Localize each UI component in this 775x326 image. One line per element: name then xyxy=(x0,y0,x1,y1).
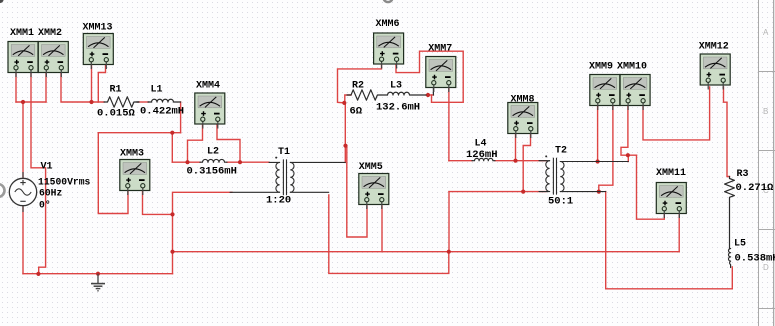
wire L1 output down to node xyxy=(180,102,182,133)
op multimeter XMM1 xyxy=(8,42,38,78)
svg-text:L1: L1 xyxy=(151,85,163,96)
svg-text:0.3156mH: 0.3156mH xyxy=(187,166,237,178)
wire R1 to L1 mid segment xyxy=(138,101,149,103)
svg-text:XMM1: XMM1 xyxy=(10,28,34,39)
multimeter XMM11 xyxy=(656,183,686,219)
lead XMM7.left to L3 row xyxy=(432,88,434,95)
wire T1 top-right up xyxy=(344,103,346,162)
svg-text:XMM9: XMM9 xyxy=(589,62,613,73)
svg-text:V1: V1 xyxy=(41,162,53,173)
node L3 out xyxy=(426,93,430,97)
wire T2 top lead corner up xyxy=(627,155,629,161)
svg-text:XMM13: XMM13 xyxy=(83,23,113,34)
wire T2 bottom-left row xyxy=(449,191,546,193)
wire node to XMM3 branch: down x=98.3 then right at 132.7 xyxy=(98,132,172,134)
wire bottom rail xyxy=(23,273,173,275)
wire XMM10.left jog down xyxy=(621,105,637,155)
wire R2-L3 dark segment xyxy=(381,94,388,96)
wire XMM6.left loop xyxy=(338,65,382,103)
node ground tap xyxy=(96,272,100,276)
wire XMM13.right jog down to node xyxy=(98,65,105,102)
wire XMM5.left branch xyxy=(347,146,367,237)
wire XMM2.left down xyxy=(45,72,47,102)
svg-text:6Ω: 6Ω xyxy=(350,106,363,118)
wire XMM4.right tap xyxy=(217,124,240,162)
multimeter XMM10 xyxy=(620,75,650,111)
wire XMM11.right down xyxy=(678,215,680,252)
wire XMM5.right down xyxy=(381,206,383,252)
svg-text:0°: 0° xyxy=(39,199,51,210)
node XMM8.right tap xyxy=(521,190,525,194)
svg-text:60Hz: 60Hz xyxy=(39,188,62,199)
node XMM4.right tap xyxy=(238,160,242,164)
wire XMM7.right down to L4 row xyxy=(448,88,450,161)
wire T2 bottom-left drop to mid rail xyxy=(448,192,450,252)
wire L4 row xyxy=(449,160,472,162)
wire node down to T1 xyxy=(344,102,345,104)
wire R2 feed xyxy=(345,95,351,103)
multimeter XMM6 xyxy=(374,33,404,69)
svg-text:L5: L5 xyxy=(734,239,746,250)
wire XMM2.right to XMM13.left bus y=102 xyxy=(61,72,104,102)
svg-text:XMM10: XMM10 xyxy=(617,62,647,73)
wire XMM4.left tap xyxy=(188,124,203,162)
wire XMM12.right down to R3 xyxy=(724,87,730,177)
node XMM6/R2/T1 xyxy=(342,101,346,105)
multimeter XMM5 xyxy=(359,174,389,210)
multimeter XMM2 xyxy=(38,42,68,78)
svg-text:R3: R3 xyxy=(737,169,749,180)
svg-text:XMM4: XMM4 xyxy=(196,81,220,92)
node mid rail left xyxy=(170,250,174,254)
svg-text:XMM2: XMM2 xyxy=(38,28,62,39)
multimeter XMM8 xyxy=(508,103,538,139)
node XMM9.right tap xyxy=(597,190,601,194)
wire XMM8.left down xyxy=(515,133,517,161)
wire node down to L2 row xyxy=(171,133,173,163)
svg-text:XMM3: XMM3 xyxy=(120,149,144,160)
node rail V1 xyxy=(36,272,40,276)
wire XMM8.right jog down xyxy=(523,133,530,192)
svg-text:XMM8: XMM8 xyxy=(511,95,535,106)
node XMM4.left tap xyxy=(185,160,189,164)
svg-text:L2: L2 xyxy=(207,147,219,158)
wire long mid rail y=251.7 xyxy=(173,251,680,253)
wire XMM10.right to XMM12.left xyxy=(643,87,710,140)
wire XMM1.left down xyxy=(15,72,17,102)
transformer T2 xyxy=(539,155,628,194)
inductor L2 xyxy=(200,159,227,162)
svg-text:T2: T2 xyxy=(555,146,567,157)
svg-text:A: A xyxy=(763,28,769,37)
multimeter XMM4 xyxy=(195,93,225,129)
wire XMM13.left down xyxy=(91,65,93,102)
inductor L3 xyxy=(388,92,427,95)
svg-text:XMM12: XMM12 xyxy=(699,42,729,53)
svg-text:B: B xyxy=(763,107,768,116)
inductor L5 (vertical) xyxy=(729,249,731,268)
wire T1 bottom-left return xyxy=(173,192,233,273)
multimeter XMM12 xyxy=(700,54,730,90)
wire L2 row xyxy=(172,161,200,163)
wire L3 out to XMM7.left xyxy=(426,94,433,96)
screen-capture artifact top-middle ring xyxy=(383,0,392,2)
node V1+/XMM1 xyxy=(21,100,25,104)
svg-text:R2: R2 xyxy=(352,81,364,92)
wire XMM1.right detour around V1 to bottom rail xyxy=(31,72,46,274)
multimeter XMM13 xyxy=(83,34,113,70)
svg-text:0.015Ω: 0.015Ω xyxy=(97,108,136,120)
resistor R2 xyxy=(347,90,381,100)
wire T1 bottom-right long return xyxy=(329,195,449,273)
multimeter XMM7 xyxy=(426,57,456,93)
inductor L1 xyxy=(152,99,181,102)
node XMM3.right tap xyxy=(170,212,174,216)
svg-text:XMM11: XMM11 xyxy=(656,168,686,179)
wire T2 bottom-right long route to L5 xyxy=(606,192,733,289)
ground xyxy=(91,274,105,291)
svg-text:L4: L4 xyxy=(475,139,487,150)
inductor L4 xyxy=(472,158,495,160)
wire V1 minus to rail xyxy=(22,206,24,274)
screen-capture artifact top-left xyxy=(0,0,4,3)
node XMM8.left tap xyxy=(513,159,517,163)
wire XMM6.right over-the-top loop xyxy=(396,51,463,102)
svg-text:11500Vrms: 11500Vrms xyxy=(38,177,91,188)
wire XMM11.left riser xyxy=(637,155,665,219)
node XMM13.left bus xyxy=(89,100,93,104)
node T1 feed mid xyxy=(343,144,347,148)
svg-text:XMM5: XMM5 xyxy=(359,162,383,173)
svg-text:R1: R1 xyxy=(110,85,122,96)
resistor R3 (vertical) xyxy=(725,177,735,200)
wire R3-L5 dark lead xyxy=(729,199,731,249)
wire XMM9.left down xyxy=(597,105,599,162)
transformer T1 xyxy=(230,157,345,195)
source V1 xyxy=(9,172,36,212)
wire V1 plus lead xyxy=(22,102,24,179)
node L1 out xyxy=(170,131,174,135)
node XMM10.left tap xyxy=(626,153,630,157)
wire XMM3.right to node xyxy=(143,190,173,214)
multimeter XMM3 xyxy=(120,160,150,196)
multimeter XMM9 xyxy=(590,75,620,111)
screen-capture artifact left-middle ring xyxy=(0,184,5,197)
svg-text:XMM7: XMM7 xyxy=(428,44,452,55)
resistor R1 xyxy=(104,97,139,107)
svg-text:XMM6: XMM6 xyxy=(376,19,400,30)
svg-text:L3: L3 xyxy=(390,81,402,92)
sheet border right xyxy=(759,0,775,326)
svg-text:132.6mH: 132.6mH xyxy=(376,102,420,114)
wire R1-L1 dark lead xyxy=(136,101,139,103)
svg-text:0.538mH: 0.538mH xyxy=(735,253,775,265)
svg-text:126mH: 126mH xyxy=(466,149,498,161)
wire XMM9.right jog to T2 bottom xyxy=(599,105,613,192)
node XMM9.left tap xyxy=(596,159,600,163)
svg-text:50:1: 50:1 xyxy=(548,196,573,208)
node T1/T2 return xyxy=(447,250,451,254)
svg-text:0.271Ω: 0.271Ω xyxy=(736,182,775,194)
svg-text:T1: T1 xyxy=(278,147,290,158)
svg-text:0.422mH: 0.422mH xyxy=(140,106,184,118)
wire XMM1-XMM2 left terminals bus y=102 xyxy=(16,101,46,103)
svg-text:1:20: 1:20 xyxy=(266,195,291,207)
